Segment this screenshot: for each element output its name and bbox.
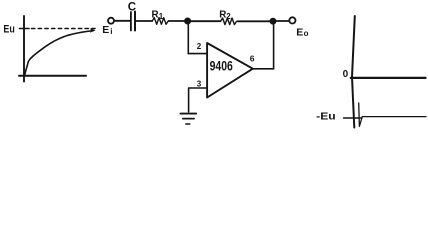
svg-text:9406: 9406 xyxy=(210,58,233,74)
svg-text:o: o xyxy=(304,29,309,38)
svg-text:E: E xyxy=(102,24,109,36)
svg-text:2: 2 xyxy=(226,12,231,21)
svg-text:Eu: Eu xyxy=(3,23,14,35)
svg-text:R: R xyxy=(152,10,159,21)
svg-text:i: i xyxy=(110,27,112,36)
svg-text:6: 6 xyxy=(250,54,255,64)
svg-text:C: C xyxy=(128,2,136,14)
svg-text:-Eu: -Eu xyxy=(316,111,336,123)
svg-text:R: R xyxy=(219,9,226,20)
svg-text:E: E xyxy=(296,26,303,38)
svg-text:2: 2 xyxy=(197,42,202,51)
svg-text:1: 1 xyxy=(159,12,164,21)
svg-text:0: 0 xyxy=(343,69,349,80)
svg-text:3: 3 xyxy=(197,80,202,89)
